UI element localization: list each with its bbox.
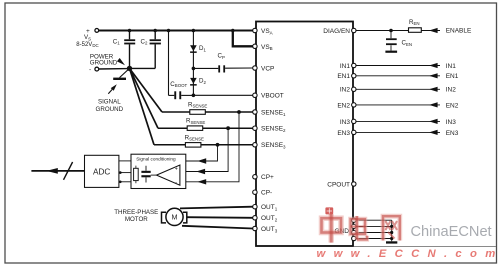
svg-text:SENSE3: SENSE3 xyxy=(261,142,286,149)
svg-text:CPOUT: CPOUT xyxy=(327,181,350,188)
svg-text:GROUND: GROUND xyxy=(90,59,118,66)
svg-text:EN1: EN1 xyxy=(337,73,350,80)
svg-text:8-52VDC: 8-52VDC xyxy=(76,42,98,48)
svg-text:www.ECCN.com: www.ECCN.com xyxy=(317,248,502,260)
svg-text:DIAG/EN: DIAG/EN xyxy=(323,28,350,35)
svg-text:GROUND: GROUND xyxy=(96,106,124,113)
svg-text:CP+: CP+ xyxy=(261,174,274,181)
svg-text:VBOOT: VBOOT xyxy=(261,93,284,100)
svg-text:EN2: EN2 xyxy=(337,102,350,109)
svg-text:Signal conditioning: Signal conditioning xyxy=(136,156,176,161)
svg-text:MOTOR: MOTOR xyxy=(125,216,148,223)
svg-text:IN1: IN1 xyxy=(446,63,457,70)
svg-text:EN3: EN3 xyxy=(446,130,459,137)
svg-text:EN3: EN3 xyxy=(337,130,350,137)
svg-text:+: + xyxy=(86,28,90,35)
svg-text:CP-: CP- xyxy=(261,190,272,197)
svg-text:THREE-PHASE: THREE-PHASE xyxy=(114,209,158,216)
svg-text:EN2: EN2 xyxy=(446,102,459,109)
svg-text:ENABLE: ENABLE xyxy=(446,27,472,34)
svg-text:IN2: IN2 xyxy=(340,87,351,94)
svg-text:ChinaECNet: ChinaECNet xyxy=(411,224,492,240)
svg-text:SENSE1: SENSE1 xyxy=(261,109,286,116)
svg-text:-: - xyxy=(175,179,177,185)
svg-text:VCP: VCP xyxy=(261,65,274,72)
svg-text:ADC: ADC xyxy=(93,168,110,177)
svg-text:SENSE2: SENSE2 xyxy=(261,126,286,133)
svg-text:EN1: EN1 xyxy=(446,73,459,80)
svg-text:M: M xyxy=(172,213,178,222)
svg-text:IN2: IN2 xyxy=(446,87,457,94)
svg-text:SIGNAL: SIGNAL xyxy=(98,99,121,106)
svg-text:-: - xyxy=(89,66,91,73)
svg-text:IN3: IN3 xyxy=(446,119,457,126)
svg-text:+: + xyxy=(175,167,178,173)
svg-text:IN3: IN3 xyxy=(340,119,351,126)
svg-text:IN1: IN1 xyxy=(340,63,351,70)
